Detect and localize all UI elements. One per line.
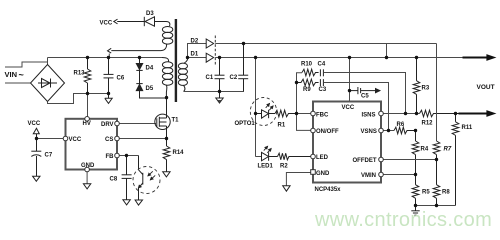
resistor R2: [278, 153, 311, 160]
pin VMIN U2: [379, 172, 384, 177]
pin OFFDET U2: [379, 157, 384, 162]
svg-text:R1: R1: [278, 123, 286, 129]
VOUT arrow upper: [463, 55, 496, 61]
resistor R9: [297, 79, 319, 86]
capacitor C7: [31, 139, 41, 177]
wire GND IC2: [286, 173, 310, 186]
svg-text:VCC: VCC: [100, 21, 113, 27]
junction R7 R8 OFFDET node: [435, 158, 438, 161]
ground IC2: [283, 186, 290, 191]
svg-text:R10: R10: [301, 62, 313, 68]
svg-text:D5: D5: [146, 86, 154, 92]
svg-text:R5: R5: [422, 190, 430, 196]
junction R8 bottom ground rail: [435, 204, 438, 207]
wire R10 C4 row: [297, 73, 303, 114]
wire D2 rail: [215, 43, 436, 45]
resistor R1: [275, 110, 297, 117]
junction VCC drop on D1 rail: [348, 56, 351, 59]
wire VMIN row: [383, 174, 415, 176]
resistor R14: [163, 139, 170, 172]
capacitor C6: [104, 58, 114, 94]
ground bottom right: [411, 206, 419, 216]
svg-text:D2: D2: [191, 39, 199, 45]
junction C6 bottom ground node: [107, 92, 110, 95]
svg-text:C3: C3: [319, 87, 327, 93]
svg-text:T1: T1: [172, 118, 180, 124]
wire secondary top node: [188, 44, 207, 58]
wire OFFDET row: [383, 159, 436, 161]
wire bottom ground rail: [416, 205, 456, 207]
svg-text:LED1: LED1: [258, 164, 274, 170]
resistor R6: [394, 127, 416, 134]
wire bridge bottom to node row: [48, 94, 109, 104]
diode D3: [144, 17, 166, 26]
svg-text:VCC: VCC: [69, 137, 82, 143]
pin FBC U2: [311, 111, 316, 116]
svg-text:C6: C6: [117, 76, 125, 82]
wire FBC: [297, 113, 311, 115]
wire main bus: [48, 57, 163, 59]
svg-text:VMIN: VMIN: [361, 173, 376, 179]
svg-text:OPTO1: OPTO1: [235, 121, 256, 127]
wire secondary ground row: [184, 91, 244, 93]
wire ISNS row: [383, 113, 419, 115]
resistor R8: [433, 160, 440, 206]
dashed cathode bar D1 D2: [214, 36, 216, 66]
svg-text:R8: R8: [442, 190, 450, 196]
capacitor C1: [215, 58, 225, 92]
wire GND drop IC1: [86, 170, 88, 184]
resistor R3: [413, 58, 420, 114]
svg-text:FBC: FBC: [316, 113, 329, 119]
pin HV U1: [85, 117, 90, 122]
svg-text:GND: GND: [316, 171, 330, 177]
wire VCC to pin: [37, 138, 64, 140]
svg-text:C1: C1: [206, 75, 214, 81]
svg-text:ON/OFF: ON/OFF: [316, 129, 339, 135]
pin GND U1: [85, 167, 90, 172]
junction rail join on VOUT rail: [385, 56, 388, 59]
junction R13 top on bus: [86, 56, 89, 59]
wire R7 column from D2 rail: [436, 44, 438, 142]
svg-text:C8: C8: [110, 177, 118, 183]
VOUT arrow lower: [456, 111, 496, 117]
svg-text:NCP435x: NCP435x: [315, 187, 342, 193]
svg-text:D1: D1: [191, 52, 199, 58]
ground under IC1: [83, 184, 90, 189]
junction R3 bottom on ISNS wire: [415, 112, 418, 115]
svg-text:OFFDET: OFFDET: [353, 158, 377, 164]
ground under C7: [33, 176, 40, 181]
svg-text:LED: LED: [316, 155, 329, 161]
svg-text:FB: FB: [106, 154, 115, 160]
svg-text:R11: R11: [462, 125, 473, 131]
IC2 NCP435x body: [313, 102, 381, 183]
capacitor C3: [320, 79, 323, 86]
ground under C8: [123, 200, 130, 205]
junction C1 bottom ground node: [218, 90, 221, 93]
bridge rectifier: [31, 65, 65, 102]
svg-text:C4: C4: [318, 62, 326, 68]
diode D5: [136, 84, 166, 98]
diode D2: [206, 39, 213, 48]
junction R4 R5 VMIN node: [414, 173, 417, 176]
junction C2 top on D2 rail: [242, 42, 245, 45]
svg-text:C2: C2: [230, 75, 238, 81]
svg-text:C5: C5: [361, 94, 369, 100]
junction primary T1 drain node: [165, 96, 168, 99]
ground under R14: [163, 172, 170, 177]
VCC arrow left mid: [33, 128, 39, 138]
ground under C6: [105, 94, 112, 104]
svg-text:VOUT: VOUT: [477, 84, 495, 91]
svg-text:VCC: VCC: [342, 105, 355, 111]
junction R13 bottom HV node: [86, 92, 89, 95]
capacitor C2: [238, 44, 248, 92]
pin circles IC2: [311, 111, 384, 177]
svg-text:R4: R4: [421, 147, 429, 153]
wire VIN top lead: [5, 62, 48, 67]
transformer core: [175, 19, 177, 102]
svg-text:HV: HV: [83, 121, 91, 127]
pin FB U1: [115, 153, 120, 158]
capacitor C5: [350, 87, 380, 94]
wire bias return stub: [108, 54, 110, 57]
svg-text:GND: GND: [81, 163, 95, 169]
wire rails join: [386, 44, 388, 58]
junction R3 top on VOUT rail: [415, 56, 418, 59]
svg-text:D3: D3: [146, 11, 154, 17]
junction R5 bottom ground rail: [414, 204, 417, 207]
ground under phototransistor: [135, 200, 142, 205]
junction D4 branch on bus: [138, 56, 141, 59]
svg-text:R6: R6: [397, 122, 405, 128]
VCC arrow top left: [114, 19, 144, 24]
junction C4 row on ISNS wire: [404, 112, 407, 115]
resistor R5: [412, 175, 419, 206]
svg-text:R9: R9: [303, 87, 311, 93]
pin circles IC1: [63, 117, 119, 172]
arrow bias return: [108, 48, 112, 53]
pin ISNS U2: [379, 111, 384, 116]
junction VCC C7 node: [35, 137, 38, 140]
svg-text:R13: R13: [74, 71, 86, 77]
dashed circle opto output: [133, 167, 160, 194]
wire C4 to ISNS: [323, 73, 405, 114]
diode D1: [206, 53, 213, 62]
wire DRV to gate: [117, 123, 156, 125]
junction C3 row on VSNS wire: [387, 129, 390, 132]
svg-text:VSNS: VSNS: [361, 129, 377, 135]
resistor R7: [433, 141, 440, 160]
svg-text:ISNS: ISNS: [362, 113, 376, 119]
svg-text:www.cntronics.com: www.cntronics.com: [314, 209, 492, 231]
wire D1 rail: [215, 57, 462, 59]
junction secondary top node: [186, 56, 189, 59]
svg-text:C7: C7: [45, 153, 53, 159]
dashed circle OPTO1: [250, 98, 276, 126]
svg-text:R12: R12: [422, 121, 434, 127]
wire VIN bottom lead: [5, 82, 31, 84]
junction FBC node: [295, 112, 298, 115]
svg-text:R7: R7: [444, 147, 452, 153]
wire FBC to ON/OFF jog: [297, 114, 311, 131]
junction R11 top lower VOUT node: [454, 112, 457, 115]
wire opto drop: [255, 58, 257, 157]
transformer secondary winding: [178, 58, 187, 92]
resistor R11: [452, 114, 459, 206]
resistor R10: [302, 69, 319, 76]
resistor R13: [84, 58, 91, 94]
svg-text:VIN~: VIN~: [5, 70, 24, 80]
wire C3 to VSNS: [323, 83, 388, 131]
wire LED1 row: [256, 156, 262, 158]
svg-text:R2: R2: [280, 164, 288, 170]
ground under C1: [216, 92, 223, 104]
phototransistor OPTO1 output: [139, 156, 156, 201]
junction R9 tap: [295, 81, 298, 84]
wire VSNS row: [383, 130, 394, 132]
pin LED U2: [311, 154, 316, 159]
pin GND U2: [311, 170, 316, 175]
pin VSNS U2: [379, 128, 384, 133]
junction C6 top on bus: [107, 56, 110, 59]
junction R4 top VSNS node: [414, 129, 417, 132]
resistor R4: [412, 131, 419, 175]
capacitor C8: [122, 156, 132, 200]
LED LED1: [262, 146, 278, 161]
wire FB row: [117, 155, 139, 157]
junction C1 top on D1 rail: [218, 56, 221, 59]
svg-text:D4: D4: [146, 66, 154, 72]
pin VCC U1: [63, 136, 68, 141]
node bridge top to bus: [47, 58, 49, 65]
IC1 controller body: [66, 119, 118, 170]
resistor R12: [420, 110, 456, 117]
svg-text:VCC: VCC: [28, 121, 41, 127]
wire HV drop: [87, 94, 89, 117]
pin DRV U1: [115, 121, 120, 126]
pin CS U1: [115, 136, 120, 141]
transformer bias winding: [111, 22, 173, 51]
junction FB C8 node: [125, 154, 128, 157]
diode D4: [136, 58, 142, 84]
junction opto branch on D1 rail: [254, 56, 257, 59]
pin ON/OFF U2: [311, 128, 316, 133]
opto LED OPTO1: [256, 103, 276, 118]
transistor T1: [155, 98, 170, 139]
wire CS row: [117, 138, 167, 140]
capacitor C4: [320, 69, 323, 76]
svg-text:R3: R3: [422, 86, 430, 92]
svg-text:CS: CS: [105, 137, 113, 143]
junction T1 source CS node: [165, 137, 168, 140]
transformer primary winding: [162, 58, 173, 98]
junction C5 tap on VCC line: [348, 89, 351, 92]
svg-text:DRV: DRV: [101, 122, 114, 128]
junction opto LED anode: [254, 112, 257, 115]
wire VCC drop: [349, 58, 351, 101]
svg-text:R14: R14: [173, 150, 185, 156]
